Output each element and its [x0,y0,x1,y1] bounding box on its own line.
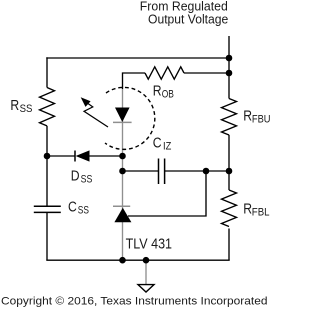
resistor ROB [145,67,184,79]
node: junction top rail [226,55,233,62]
node: junction ground [143,257,150,264]
node: junction Rss/Dss/Css [44,153,51,160]
wire: Rss top lead [46,57,48,87]
LED cathode bar [113,121,132,123]
optocoupler package dashed arc [105,87,155,149]
svg-text:SS: SS [81,173,93,185]
svg-text:FBU: FBU [252,113,270,125]
wire: CIZ right lead to divider node [165,170,229,172]
node: junction TLV431 anode [119,257,126,264]
svg-text:TLV 431: TLV 431 [126,237,172,253]
svg-text:Copyright © 2016, Texas Instru: Copyright © 2016, Texas Instruments Inco… [1,295,268,307]
svg-text:C: C [68,199,77,215]
node: junction Dss/LED [119,153,126,160]
wire: RFBU bottom lead [228,135,230,171]
wire: bottom rail [46,259,229,261]
optocoupler light arrow [84,103,108,127]
wire: CIZ left lead [123,170,159,172]
svg-text:R: R [243,108,252,124]
svg-text:FBL: FBL [252,207,270,219]
LED D1 of optocoupler [115,108,130,123]
wire: Css bottom lead [46,212,48,260]
resistor RFBL [222,190,237,227]
wire: right vertical upper segment [228,58,230,99]
resistor RFBU [222,99,237,136]
resistor RSS [40,88,55,126]
svg-text:IZ: IZ [163,141,172,153]
wire: ROB left lead to LED branch [123,73,146,89]
svg-text:C: C [153,136,162,152]
svg-text:OB: OB [162,88,174,100]
svg-text:SS: SS [20,103,33,115]
wire: top rail [46,57,229,59]
capacitor CIZ [158,159,160,185]
wire: gray optocoupler/TLV431 vertical lead [122,89,124,260]
svg-text:Output Voltage: Output Voltage [148,12,228,27]
capacitor CSS [34,205,61,207]
wire: TLV431 reference connection [128,171,206,216]
wire: DSS right lead [90,155,123,157]
svg-text:R: R [153,83,162,99]
svg-text:D: D [71,168,80,184]
svg-text:R: R [243,202,252,218]
diode DSS [74,151,76,162]
wire: Css top lead [46,156,48,206]
wire: RFBL top lead [228,171,230,190]
wire: RFBL bottom lead [228,229,230,261]
node: junction CIZ left [119,168,126,175]
wire: ROB rail from node to resistor [184,72,229,74]
node: junction reference [203,168,210,175]
ground [145,260,147,284]
node: junction ROB rail [226,70,233,77]
svg-text:R: R [10,98,19,114]
wire: input drop from label to top rail [228,36,230,58]
svg-text:SS: SS [78,204,89,216]
node: junction divider midpoint [226,168,233,175]
node: From Regulated Output Voltage label [140,0,229,27]
shunt regulator TLV431 [113,205,130,207]
wire: DSS left lead [47,155,75,157]
wire: Rss bottom lead [46,126,48,156]
